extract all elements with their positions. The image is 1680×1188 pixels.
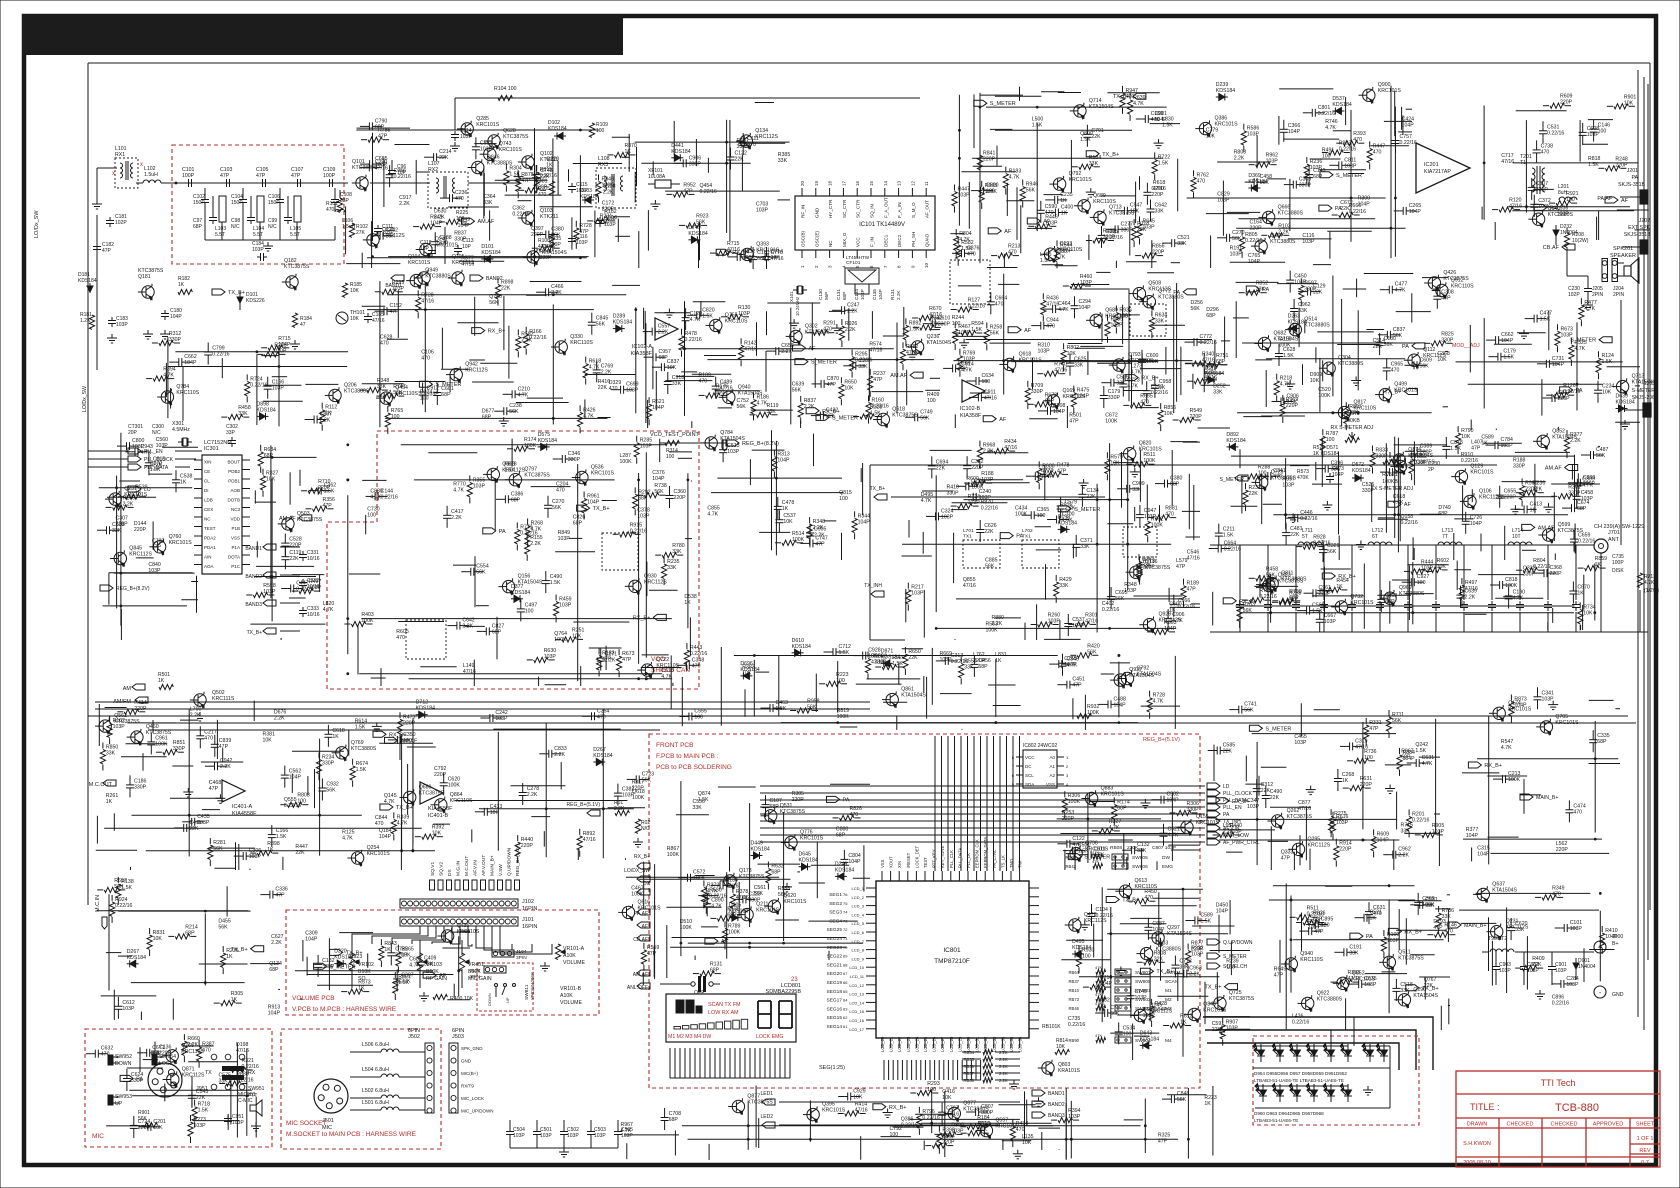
circuit cluster bbox=[99, 487, 192, 489]
svg-text:KRC101S: KRC101S bbox=[1378, 88, 1402, 94]
svg-text:KRC112S: KRC112S bbox=[1159, 618, 1182, 624]
svg-text:P1C: P1C bbox=[231, 564, 241, 569]
svg-text:47/16: 47/16 bbox=[1202, 358, 1215, 364]
svg-text:20P: 20P bbox=[128, 430, 138, 436]
svg-text:OFF: OFF bbox=[694, 990, 704, 996]
svg-text:PDB1: PDB1 bbox=[228, 479, 240, 484]
svg-text:0.22/16: 0.22/16 bbox=[1151, 390, 1168, 396]
svg-text:EEPROM_CLK: EEPROM_CLK bbox=[975, 839, 980, 868]
svg-text:A1: A1 bbox=[1049, 764, 1055, 769]
potentiometer RV571 bbox=[1383, 459, 1397, 464]
svg-text:1.5K: 1.5K bbox=[971, 327, 982, 333]
diode D101 bbox=[239, 292, 241, 310]
svg-text:KTA1504S: KTA1504S bbox=[1089, 104, 1114, 110]
svg-text:P1B: P1B bbox=[231, 526, 240, 531]
svg-text:56K: 56K bbox=[985, 563, 995, 569]
svg-text:56K: 56K bbox=[476, 570, 486, 576]
transistor Q105 KRC101S bbox=[452, 272, 464, 284]
svg-text:104P: 104P bbox=[860, 289, 865, 300]
svg-text:KRC110S: KRC110S bbox=[395, 391, 418, 397]
svg-text:GND: GND bbox=[461, 1059, 472, 1064]
IC IC801 TMP87210F bbox=[876, 881, 1029, 1038]
svg-text:V.PCB to M.PCB : HARNESS WIRE: V.PCB to M.PCB : HARNESS WIRE bbox=[292, 1006, 397, 1013]
svg-text:100: 100 bbox=[596, 128, 605, 134]
svg-text:2.2K: 2.2K bbox=[1234, 156, 1245, 162]
svg-text:L502 6.8uH: L502 6.8uH bbox=[362, 1088, 389, 1094]
svg-text:DEC1: DEC1 bbox=[883, 234, 888, 247]
svg-text:DC: DC bbox=[1025, 764, 1032, 769]
capacitor C107 bbox=[294, 182, 298, 184]
svg-text:KTA1504S: KTA1504S bbox=[1274, 337, 1299, 343]
svg-text:MIC_UP/DOWN: MIC_UP/DOWN bbox=[461, 1109, 494, 1114]
wire fan J101 to volume pots bbox=[352, 926, 420, 944]
ground bbox=[563, 1148, 565, 1152]
svg-text:103P: 103P bbox=[1302, 239, 1315, 245]
svg-text:102P: 102P bbox=[1568, 292, 1580, 298]
svg-text:330P: 330P bbox=[1568, 490, 1581, 496]
svg-text:LCD_33: LCD_33 bbox=[992, 1036, 997, 1052]
tag BAND1 bottom bbox=[1032, 1090, 1045, 1096]
svg-text:1.5K: 1.5K bbox=[550, 580, 561, 586]
svg-text:TMI: TMI bbox=[1018, 861, 1023, 868]
svg-text:68P: 68P bbox=[264, 453, 274, 459]
svg-text:L506 6.8uH: L506 6.8uH bbox=[362, 1042, 389, 1048]
wire bbox=[1205, 1030, 1416, 1070]
svg-text:103P: 103P bbox=[1038, 349, 1051, 355]
svg-text:AF: AF bbox=[1043, 219, 1051, 225]
volume pots VR102 VR103 VR401 bbox=[349, 953, 354, 971]
svg-text:SC_CTR: SC_CTR bbox=[856, 199, 861, 218]
svg-text:SEG1: SEG1 bbox=[829, 892, 842, 898]
svg-text:PLL_LK: PLL_LK bbox=[966, 853, 971, 868]
svg-text:LCD_35: LCD_35 bbox=[1009, 1036, 1014, 1052]
svg-text:MAIN_B+: MAIN_B+ bbox=[1536, 795, 1558, 801]
svg-text:T901 T2: T901 T2 bbox=[1488, 936, 1507, 942]
svg-text:10K: 10K bbox=[1164, 411, 1174, 417]
circuit cluster bbox=[1079, 976, 1220, 978]
svg-text:1.5K: 1.5K bbox=[1283, 353, 1294, 359]
svg-text:0.22/16: 0.22/16 bbox=[1339, 147, 1356, 153]
tag REG_B+(8.2V) left bbox=[100, 585, 113, 591]
svg-text:SEG18: SEG18 bbox=[827, 989, 843, 995]
svg-text:KRC101S: KRC101S bbox=[124, 492, 148, 498]
svg-text:22K: 22K bbox=[984, 529, 994, 535]
svg-text:/RESET: /RESET bbox=[906, 852, 911, 868]
svg-text:33K: 33K bbox=[238, 411, 248, 417]
svg-text:22K: 22K bbox=[958, 366, 968, 372]
svg-text:J102: J102 bbox=[522, 899, 534, 905]
svg-text:LCD_2: LCD_2 bbox=[852, 895, 865, 900]
svg-text:0.22/16: 0.22/16 bbox=[212, 352, 229, 358]
svg-text:MIC: MIC bbox=[322, 1125, 332, 1131]
svg-text:KDS184: KDS184 bbox=[1352, 468, 1371, 474]
M.G.OUT tag bbox=[103, 780, 116, 786]
svg-text:V.SW: V.SW bbox=[498, 864, 504, 876]
circuit cluster bbox=[1236, 605, 1575, 607]
svg-text:47P: 47P bbox=[390, 309, 400, 315]
svg-text:103P: 103P bbox=[1282, 482, 1295, 488]
svg-text:RX3: RX3 bbox=[598, 162, 608, 168]
svg-text:DRAWN: DRAWN bbox=[1467, 1122, 1488, 1128]
svg-text:2.2K: 2.2K bbox=[804, 404, 815, 410]
svg-text:104P: 104P bbox=[1155, 117, 1168, 123]
wire main filter bus bbox=[172, 182, 348, 184]
svg-text:22K: 22K bbox=[289, 556, 299, 562]
bus verticals to IC801 bbox=[934, 736, 936, 871]
op-amp IC401-A KIA4558F bbox=[222, 780, 245, 802]
transformer L109 dashed box bbox=[950, 260, 990, 304]
svg-text:TX_B+: TX_B+ bbox=[1113, 94, 1130, 100]
svg-text:330P: 330P bbox=[689, 161, 702, 167]
capacitor C182 bbox=[96, 243, 98, 247]
svg-text:330P: 330P bbox=[938, 322, 951, 328]
svg-text:47P: 47P bbox=[323, 503, 333, 509]
svg-text:103P: 103P bbox=[1499, 968, 1511, 974]
transistor Q102 KTK211 bbox=[522, 156, 534, 168]
svg-text:LCD_31: LCD_31 bbox=[975, 1036, 980, 1052]
svg-text:103P: 103P bbox=[513, 1133, 525, 1139]
ground bbox=[147, 330, 149, 334]
svg-text:4.7K: 4.7K bbox=[1131, 369, 1142, 375]
ground bbox=[255, 1122, 257, 1126]
svg-text:L504 6.8uH: L504 6.8uH bbox=[362, 1067, 389, 1073]
tag BAND3 bottom bbox=[1032, 1112, 1045, 1118]
svg-text:AM.AF: AM.AF bbox=[890, 373, 907, 379]
svg-text:47P: 47P bbox=[1069, 419, 1079, 425]
svg-text:REG_B+(8.2V): REG_B+(8.2V) bbox=[742, 441, 779, 447]
svg-text:M.G.IN: M.G.IN bbox=[456, 860, 462, 876]
svg-text:0.22/16: 0.22/16 bbox=[872, 404, 889, 410]
svg-text:100: 100 bbox=[986, 189, 995, 195]
svg-text:S-METER: S-METER bbox=[1632, 388, 1656, 394]
svg-text:LCD_11: LCD_11 bbox=[850, 974, 865, 979]
svg-text:33K: 33K bbox=[667, 565, 677, 571]
tag BAND2 bottom bbox=[1032, 1101, 1045, 1107]
svg-text:2.2K: 2.2K bbox=[896, 290, 901, 300]
diode D901 1N4004 bbox=[1575, 958, 1577, 980]
svg-text:KDS184: KDS184 bbox=[1248, 179, 1267, 185]
svg-text:47P: 47P bbox=[256, 173, 266, 179]
transformer L101 RX1 bbox=[120, 163, 123, 178]
svg-text:470: 470 bbox=[1353, 137, 1362, 143]
TX driver enclosure wires bbox=[870, 464, 1497, 466]
svg-text:47/16: 47/16 bbox=[375, 165, 388, 171]
circuit cluster bbox=[367, 257, 587, 259]
svg-text:47/16: 47/16 bbox=[1054, 368, 1067, 374]
input filter dashed box bbox=[172, 145, 344, 264]
svg-text:4.7K: 4.7K bbox=[453, 488, 464, 494]
svg-text:LCD_22: LCD_22 bbox=[897, 1036, 902, 1052]
capacitor C97 bbox=[212, 196, 214, 214]
svg-text:M.SOCKET to MAIN PCB : HARNESS: M.SOCKET to MAIN PCB : HARNESS WIRE bbox=[286, 1131, 417, 1138]
svg-text:68P: 68P bbox=[482, 415, 492, 421]
resistor R184 bbox=[292, 313, 297, 327]
svg-text:DOTA: DOTA bbox=[228, 555, 240, 560]
svg-text:47P: 47P bbox=[602, 657, 612, 663]
tag S_METER bbox=[1207, 953, 1220, 959]
svg-text:P1A: P1A bbox=[231, 545, 240, 550]
svg-text:56K: 56K bbox=[696, 219, 706, 225]
wire bbox=[242, 214, 244, 240]
svg-text:KRC101S: KRC101S bbox=[1019, 357, 1043, 363]
svg-text:103P: 103P bbox=[559, 603, 572, 609]
svg-text:1.5K: 1.5K bbox=[1080, 137, 1091, 143]
svg-text:SPK_GND: SPK_GND bbox=[461, 1046, 483, 1051]
diode D232 1N4004 bbox=[1555, 225, 1557, 245]
svg-text:KIA7217AP: KIA7217AP bbox=[1424, 169, 1451, 175]
svg-text:16: 16 bbox=[855, 180, 860, 186]
tag REG_B+(8.2V) bbox=[726, 440, 739, 446]
svg-text:47P: 47P bbox=[873, 377, 883, 383]
svg-text:IC102-B: IC102-B bbox=[960, 406, 981, 412]
tag LED1 bbox=[762, 1099, 775, 1105]
svg-text:1K: 1K bbox=[684, 600, 691, 606]
wire bbox=[370, 182, 430, 184]
svg-text:2.2K: 2.2K bbox=[781, 349, 792, 355]
svg-text:VCC: VCC bbox=[1025, 755, 1035, 760]
svg-text:100K: 100K bbox=[1015, 512, 1028, 518]
svg-text:LCD_26: LCD_26 bbox=[932, 1036, 937, 1052]
svg-text:SQ_IN: SQ_IN bbox=[870, 204, 875, 218]
svg-text:71: 71 bbox=[843, 936, 848, 941]
svg-text:IC102-A: IC102-A bbox=[632, 344, 653, 350]
svg-text:PDB2: PDB2 bbox=[228, 469, 240, 474]
circuit cluster bbox=[263, 456, 317, 458]
svg-text:220P: 220P bbox=[134, 527, 147, 533]
svg-text:47/16: 47/16 bbox=[1501, 159, 1514, 165]
svg-text:103P: 103P bbox=[1557, 211, 1570, 217]
svg-text:CB.AF: CB.AF bbox=[1543, 245, 1560, 251]
svg-text:62: 62 bbox=[843, 1015, 848, 1020]
tag LO bbox=[128, 486, 141, 492]
svg-text:1N4004: 1N4004 bbox=[1578, 964, 1596, 970]
wire bbox=[279, 214, 281, 240]
svg-text:104P: 104P bbox=[1288, 129, 1301, 135]
svg-text:47/16: 47/16 bbox=[372, 318, 385, 324]
capacitor C106 bbox=[279, 188, 281, 196]
svg-text:7: 7 bbox=[883, 265, 888, 268]
svg-text:APPROVED: APPROVED bbox=[1593, 1122, 1624, 1128]
svg-text:KRC101S: KRC101S bbox=[169, 540, 193, 546]
svg-text:1.5K: 1.5K bbox=[1032, 122, 1043, 128]
svg-text:17: 17 bbox=[841, 180, 846, 186]
svg-text:2.2K: 2.2K bbox=[814, 533, 825, 539]
svg-text:103P: 103P bbox=[392, 286, 405, 292]
svg-text:470: 470 bbox=[556, 487, 565, 493]
connector J900 bbox=[1594, 941, 1606, 953]
svg-text:68P: 68P bbox=[1170, 482, 1180, 488]
svg-text:CE: CE bbox=[204, 469, 210, 474]
svg-text:33K: 33K bbox=[672, 381, 682, 387]
svg-text:47/16: 47/16 bbox=[963, 583, 976, 589]
svg-text:KRC101S: KRC101S bbox=[499, 147, 523, 153]
svg-text:1K: 1K bbox=[1159, 385, 1166, 391]
svg-text:104P: 104P bbox=[1294, 280, 1307, 286]
capacitor C185 bbox=[367, 313, 369, 317]
thermistor TH101 bbox=[336, 312, 348, 324]
svg-text:220P: 220P bbox=[983, 156, 996, 162]
svg-text:LCD_6: LCD_6 bbox=[852, 930, 865, 935]
tag AF bbox=[1605, 197, 1618, 203]
svg-text:330P: 330P bbox=[1108, 395, 1121, 401]
tag TX_INH bbox=[871, 591, 884, 597]
svg-text:FRONT PCB: FRONT PCB bbox=[656, 742, 693, 749]
capacitor C180 bbox=[164, 310, 166, 314]
svg-text:220P: 220P bbox=[1190, 414, 1203, 420]
svg-text:1.5K: 1.5K bbox=[150, 467, 161, 473]
svg-text:56K: 56K bbox=[1115, 596, 1125, 602]
svg-text:KTA1504S: KTA1504S bbox=[518, 580, 543, 586]
svg-text:R131: R131 bbox=[890, 289, 895, 300]
svg-text:10.24MHz: 10.24MHz bbox=[795, 297, 800, 316]
capacitor C105 bbox=[259, 182, 263, 184]
svg-text:4.7K: 4.7K bbox=[921, 498, 932, 504]
resistor R02 bbox=[635, 819, 640, 833]
svg-text:100K: 100K bbox=[1146, 359, 1159, 365]
svg-text:4.7K: 4.7K bbox=[1584, 306, 1595, 312]
svg-text:1.5K: 1.5K bbox=[702, 313, 713, 319]
circuit cluster bbox=[626, 876, 779, 878]
svg-text:SEG24: SEG24 bbox=[827, 936, 843, 942]
ground bbox=[1013, 1080, 1015, 1084]
svg-text:MOD__ADJ: MOD__ADJ bbox=[1452, 343, 1480, 349]
svg-text:AF: AF bbox=[1004, 229, 1012, 235]
svg-text:68: 68 bbox=[843, 962, 848, 967]
AM/FM tag bbox=[135, 697, 148, 703]
svg-text:1.5K: 1.5K bbox=[1602, 359, 1613, 365]
svg-text:2.2K: 2.2K bbox=[462, 624, 473, 630]
crystal filter XF101 10L08A bbox=[655, 180, 671, 188]
svg-text:DEC2: DEC2 bbox=[897, 234, 902, 247]
capacitor C331 bbox=[302, 551, 304, 555]
svg-text:RX/T9: RX/T9 bbox=[461, 1084, 474, 1089]
svg-text:KDS184: KDS184 bbox=[538, 438, 557, 444]
capacitor C951 bbox=[227, 1115, 229, 1119]
VCO shield can dashed box bbox=[327, 431, 699, 689]
svg-text:PH_SH: PH_SH bbox=[911, 232, 916, 247]
svg-text:103P: 103P bbox=[1217, 198, 1230, 204]
svg-text:103P: 103P bbox=[640, 444, 653, 450]
tag Q.UP/DOWN bbox=[1207, 939, 1220, 945]
circuit cluster bbox=[707, 359, 934, 361]
svg-text:S_METER: S_METER bbox=[1219, 477, 1244, 483]
svg-text:150P: 150P bbox=[268, 200, 280, 206]
svg-text:GND: GND bbox=[814, 207, 819, 218]
svg-text:VOLUME PCB: VOLUME PCB bbox=[292, 995, 335, 1002]
svg-text:SEG21: SEG21 bbox=[827, 962, 843, 968]
svg-text:KDS184: KDS184 bbox=[511, 590, 530, 596]
svg-text:0.22/16: 0.22/16 bbox=[1401, 520, 1418, 526]
LED array top row D954-D959 D951 D952 bbox=[1253, 1045, 1348, 1047]
svg-text:23: 23 bbox=[791, 977, 798, 983]
svg-text:4.7K: 4.7K bbox=[531, 527, 542, 533]
svg-text:0.22/16: 0.22/16 bbox=[512, 212, 529, 218]
MIC dashed box bbox=[85, 1029, 272, 1147]
svg-text:2: 2 bbox=[814, 265, 819, 268]
MIC TX RX bars bbox=[222, 1066, 244, 1071]
wire bbox=[1203, 1017, 1433, 1070]
svg-text:RX: RX bbox=[248, 1070, 256, 1076]
svg-text:33K: 33K bbox=[672, 549, 682, 555]
resistor R01 bbox=[615, 810, 629, 815]
ground bbox=[1624, 420, 1626, 424]
svg-text:102P: 102P bbox=[115, 220, 127, 226]
svg-text:S_METER: S_METER bbox=[811, 360, 837, 366]
transformer T901 T2 bbox=[1490, 949, 1514, 952]
svg-text:47P: 47P bbox=[827, 382, 837, 388]
ground bbox=[637, 838, 639, 842]
svg-text:47P: 47P bbox=[152, 544, 162, 550]
svg-text:4.7K: 4.7K bbox=[1009, 175, 1020, 181]
svg-text:MIC SOCKET: MIC SOCKET bbox=[286, 1120, 326, 1127]
svg-text:1K: 1K bbox=[782, 506, 789, 512]
svg-text:104P: 104P bbox=[1409, 209, 1422, 215]
svg-text:LCD_8: LCD_8 bbox=[852, 948, 865, 953]
resistor R814 bbox=[1055, 1049, 1069, 1054]
svg-text:56K: 56K bbox=[596, 322, 606, 328]
svg-text:C131: C131 bbox=[836, 289, 841, 300]
mic socket coils bbox=[381, 1049, 399, 1052]
LCD big 7seg digits bbox=[758, 1001, 771, 1028]
svg-text:IC401-B: IC401-B bbox=[428, 813, 449, 819]
svg-text:74: 74 bbox=[843, 910, 848, 915]
inductor L103 5.5T bbox=[219, 196, 226, 222]
capacitor C181 bbox=[109, 217, 111, 221]
svg-text:IC101 TK14489V: IC101 TK14489V bbox=[859, 222, 905, 228]
svg-text:2.2K: 2.2K bbox=[847, 308, 858, 314]
svg-text:22K: 22K bbox=[439, 155, 449, 161]
svg-text:1K: 1K bbox=[178, 282, 185, 288]
svg-text:33K: 33K bbox=[386, 234, 396, 240]
svg-text:NC3: NC3 bbox=[231, 507, 240, 512]
svg-text:LCD_5: LCD_5 bbox=[852, 921, 865, 926]
svg-text:103P: 103P bbox=[576, 240, 588, 246]
svg-text:1.5K: 1.5K bbox=[1223, 533, 1234, 539]
svg-text:R104 100: R104 100 bbox=[494, 86, 517, 92]
capacitor C108 bbox=[334, 188, 336, 196]
capacitor C114 bbox=[454, 131, 456, 135]
ground bbox=[294, 340, 296, 344]
svg-text:103P: 103P bbox=[116, 322, 128, 328]
svg-text:KDS184: KDS184 bbox=[1616, 400, 1635, 406]
svg-text:56K: 56K bbox=[990, 330, 1000, 336]
svg-text:103P: 103P bbox=[1344, 163, 1357, 169]
svg-text:3: 3 bbox=[1066, 773, 1069, 778]
switch SW811 YPS210120SK bbox=[495, 984, 498, 987]
svg-text:103P: 103P bbox=[1230, 252, 1243, 258]
svg-text:68P: 68P bbox=[511, 497, 521, 503]
capacitor C113 bbox=[457, 245, 459, 249]
svg-text:BAND1: BAND1 bbox=[1048, 1091, 1065, 1097]
svg-text:LCD_3: LCD_3 bbox=[852, 904, 865, 909]
svg-text:47/16: 47/16 bbox=[771, 256, 784, 262]
circuit cluster bbox=[635, 141, 790, 143]
svg-text:33K: 33K bbox=[1074, 363, 1084, 369]
svg-text:8: 8 bbox=[897, 265, 902, 268]
svg-text:100: 100 bbox=[1326, 437, 1335, 443]
tag SQUELCH bbox=[1207, 963, 1220, 969]
capacitor C102 bbox=[204, 188, 206, 196]
circuit cluster bbox=[954, 360, 1193, 362]
svg-text:D960 D963 D964D965 D967D968: D960 D963 D964D965 D967D968 bbox=[1254, 1111, 1324, 1116]
svg-text:103P: 103P bbox=[1144, 514, 1157, 520]
svg-text:15: 15 bbox=[869, 180, 874, 186]
svg-text:4.7K: 4.7K bbox=[1644, 580, 1655, 586]
svg-text:100K: 100K bbox=[1538, 204, 1551, 210]
capacitor C302 bbox=[231, 437, 233, 441]
svg-text:2.2K: 2.2K bbox=[434, 215, 445, 221]
svg-text:65: 65 bbox=[843, 989, 848, 994]
